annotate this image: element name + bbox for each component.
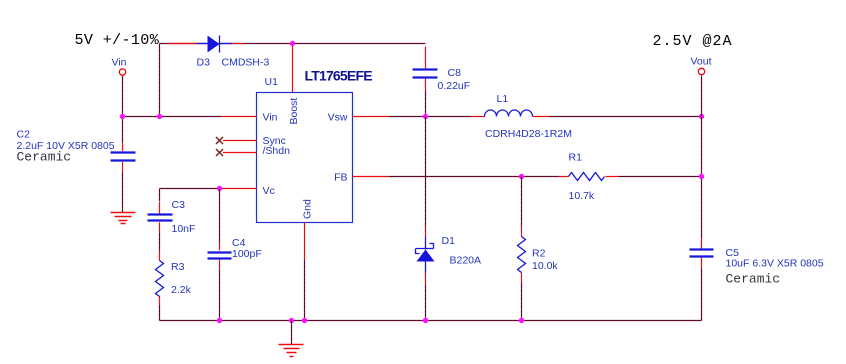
svg-text:Vin: Vin	[112, 57, 127, 69]
svg-text:D3: D3	[197, 57, 211, 69]
pin stub Vin (red)	[221, 116, 257, 118]
inductor L1	[471, 110, 550, 116]
pin stub /Shdn (red)	[223, 152, 257, 154]
wire ground rail	[160, 320, 702, 322]
junction input node A	[120, 114, 125, 119]
wire R3 bottom	[159, 306, 161, 321]
junction rail/Gnd pin	[302, 318, 307, 323]
capacitor C2	[111, 143, 136, 173]
svg-text:Ceramic: Ceramic	[17, 150, 72, 165]
svg-text:Gnd: Gnd	[302, 199, 314, 219]
svg-text:Ceramic: Ceramic	[726, 272, 781, 287]
junction Vsw node	[423, 114, 428, 119]
svg-text:U1: U1	[265, 76, 279, 88]
resistor R2	[518, 226, 526, 283]
svg-text:CMDSH-3: CMDSH-3	[222, 57, 270, 69]
terminal Vout	[698, 68, 704, 74]
wire FB net right	[619, 176, 702, 178]
svg-text:LT1765EFE: LT1765EFE	[305, 68, 373, 84]
diode D1 B220A	[416, 227, 435, 285]
wire C3 top	[159, 189, 161, 202]
svg-text:C8: C8	[448, 67, 462, 79]
svg-text:R1: R1	[569, 152, 583, 164]
wire R2 top	[521, 177, 523, 226]
pin stub Gnd (red)	[304, 223, 306, 260]
no-connect X Sync	[216, 137, 223, 144]
junction boost node	[290, 41, 295, 46]
junction input node B	[157, 114, 162, 119]
wire Vout column mid	[701, 117, 703, 177]
svg-text:R2: R2	[532, 248, 546, 260]
wire 5V top rail	[160, 43, 426, 45]
wire C5 bottom	[701, 269, 703, 321]
label C5 value	[726, 247, 824, 287]
svg-text:L1: L1	[497, 93, 509, 105]
svg-text:Vin: Vin	[263, 112, 278, 124]
wire C3 to R3	[159, 233, 161, 251]
svg-text:R3: R3	[171, 261, 185, 273]
junction FB/Vout node	[699, 174, 704, 179]
wire Vout terminal drop	[701, 76, 703, 117]
junction Vc/C4 node	[217, 186, 222, 191]
wire ground stem	[291, 321, 293, 345]
svg-text:5V +/-10%: 5V +/-10%	[75, 32, 160, 49]
svg-text:D1: D1	[442, 235, 456, 247]
svg-text:C3: C3	[172, 199, 186, 211]
diode D3 CMDSH-3	[169, 36, 245, 53]
resistor R3	[156, 251, 164, 306]
wire C2 to ground	[122, 173, 124, 213]
label C2 value	[17, 129, 115, 165]
svg-text:100pF: 100pF	[232, 248, 262, 260]
svg-text:Vsw: Vsw	[328, 112, 348, 124]
junction FB/R2 node	[519, 174, 524, 179]
wire FB net left	[389, 176, 559, 178]
capacitor C4	[208, 243, 232, 271]
wire C4 top	[219, 189, 221, 243]
pin stub Boost (red)	[292, 46, 294, 94]
svg-text:C2: C2	[17, 129, 31, 141]
wire 5V input drop	[159, 44, 161, 117]
svg-text:2.5V @2A: 2.5V @2A	[653, 33, 733, 50]
resistor R1	[559, 173, 619, 181]
wire Gnd pin drop	[304, 260, 306, 321]
wire R2 bottom	[521, 283, 523, 321]
wire C8 bottom	[425, 91, 427, 117]
no-connect X /Shdn	[216, 149, 223, 156]
svg-text:CDRH4D28-1R2M: CDRH4D28-1R2M	[485, 128, 572, 140]
svg-text:10nF: 10nF	[172, 223, 196, 235]
wire D1 top	[425, 117, 427, 227]
svg-text:FB: FB	[334, 172, 347, 184]
junction Vout node	[699, 114, 704, 119]
wire Vc net	[160, 188, 222, 190]
label C8	[438, 67, 471, 92]
capacitor C8	[413, 47, 438, 91]
pin stub FB (red)	[353, 176, 389, 178]
op-amp U1 LT1765EFE box	[257, 93, 353, 223]
svg-text:10.7k: 10.7k	[569, 190, 595, 202]
svg-text:Vout: Vout	[691, 56, 712, 68]
svg-text:0.22uF: 0.22uF	[438, 80, 471, 92]
wire C2 top	[122, 117, 124, 143]
wire D1 bottom	[425, 285, 427, 321]
wire Vin terminal drop	[122, 76, 124, 117]
svg-text:10uF 6.3V X5R 0805: 10uF 6.3V X5R 0805	[726, 258, 824, 270]
wire input net to Vin pin	[123, 116, 221, 118]
svg-text:Boost: Boost	[288, 98, 300, 125]
pin stub Vsw (red)	[353, 116, 389, 118]
ground (C2)	[111, 213, 136, 224]
wire L1 to Vout column	[550, 116, 702, 118]
svg-text:2.2k: 2.2k	[171, 284, 192, 296]
junction rail/R2	[519, 318, 524, 323]
capacitor C3	[148, 202, 173, 233]
junction rail/D1	[423, 318, 428, 323]
pin stub Vc (red)	[222, 188, 257, 190]
pin stub Sync (red)	[223, 140, 257, 142]
junction rail/ground	[289, 318, 294, 323]
ground (main)	[279, 345, 304, 357]
svg-text:Vc: Vc	[263, 185, 275, 197]
terminal Vin	[119, 69, 125, 75]
svg-text:/Shdn: /Shdn	[263, 145, 291, 157]
junction rail/C4	[217, 318, 222, 323]
capacitor C5	[690, 239, 714, 269]
wire Vout column to C5	[701, 177, 703, 239]
wire C4 bottom	[219, 271, 221, 321]
wire Vsw to L1	[389, 116, 471, 118]
svg-text:10.0k: 10.0k	[532, 260, 558, 272]
svg-text:B220A: B220A	[450, 255, 482, 267]
